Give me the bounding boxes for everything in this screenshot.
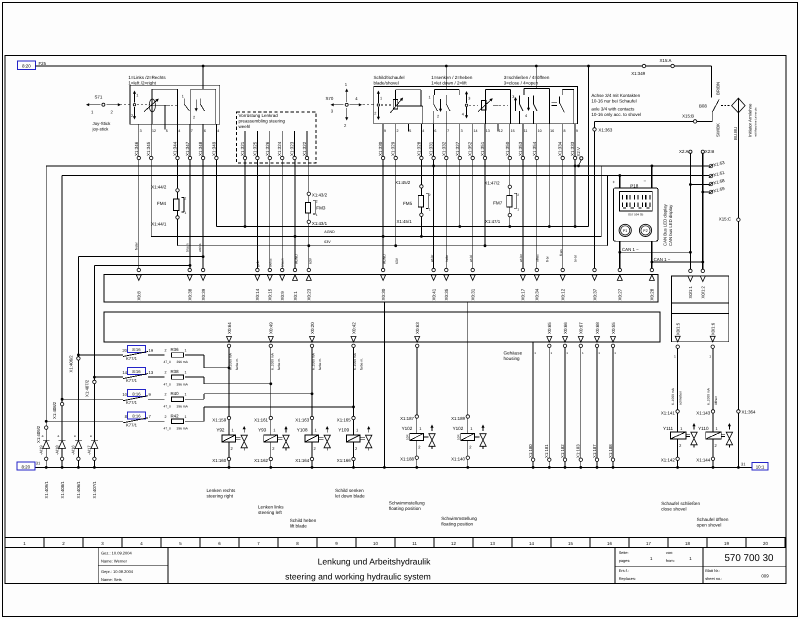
connector X1:53 xyxy=(709,164,713,168)
wire X1:324 xyxy=(281,131,283,156)
svg-text:Y110: Y110 xyxy=(698,426,709,431)
svg-text:5: 5 xyxy=(409,129,411,133)
svg-text:6..1000 mA: 6..1000 mA xyxy=(353,352,357,370)
svg-text:X1:334: X1:334 xyxy=(558,141,563,156)
svg-text:X0/1:1: X0/1:1 xyxy=(688,285,693,298)
svg-text:X0:8: X0:8 xyxy=(137,291,142,301)
svg-text:steering and working hydraulic: steering and working hydraulic system xyxy=(285,572,431,582)
wire rail ring C y256.6 xyxy=(78,256,203,258)
svg-text:X1:164: X1:164 xyxy=(295,458,309,463)
svg-text:X0:41: X0:41 xyxy=(431,288,436,300)
svg-text:17: 17 xyxy=(646,541,651,546)
svg-text:X1:406/2: X1:406/2 xyxy=(68,355,73,373)
wire X1:330 to X0:30 xyxy=(382,160,384,269)
svg-text:X1:141: X1:141 xyxy=(661,411,675,416)
svg-text:2: 2 xyxy=(165,371,167,375)
svg-text:6..1000 mA: 6..1000 mA xyxy=(270,352,274,370)
svg-text:X1:142: X1:142 xyxy=(661,457,675,462)
svg-text:X1:160: X1:160 xyxy=(212,458,226,463)
connector strip X0 upper band xyxy=(104,275,658,302)
svg-text:19: 19 xyxy=(724,541,729,546)
svg-text:X0:64: X0:64 xyxy=(227,322,232,334)
svg-text:8: 8 xyxy=(564,129,566,133)
svg-text:X1:349: X1:349 xyxy=(211,141,216,156)
wire X1:332 xyxy=(445,124,447,157)
junction on F25 to switch block S70 riser 2 xyxy=(535,65,538,68)
svg-text:10: 10 xyxy=(373,541,378,546)
connector X0:27 xyxy=(618,268,621,271)
svg-text:6..1000 mA: 6..1000 mA xyxy=(229,352,233,370)
connector X0:17 xyxy=(521,268,524,271)
wire X1:323 to X0:1 xyxy=(294,160,296,269)
svg-text:X0:66: X0:66 xyxy=(563,322,568,334)
svg-text:10: 10 xyxy=(122,392,127,397)
solenoid valve Y109 xyxy=(353,348,355,417)
svg-text:11: 11 xyxy=(524,129,528,133)
svg-text:X1:45/1: X1:45/1 xyxy=(397,219,413,224)
svg-text:joy-stick: joy-stick xyxy=(92,127,110,132)
svg-text:F1: F1 xyxy=(623,229,627,233)
svg-text:X0:15: X0:15 xyxy=(268,288,273,300)
svg-text:X1:351: X1:351 xyxy=(480,141,485,156)
svg-text:FM7: FM7 xyxy=(493,200,503,205)
wire X1:182 xyxy=(564,348,566,459)
svg-text:19: 19 xyxy=(149,348,154,353)
wire X0:63 to valve Y102-1 xyxy=(416,348,418,415)
svg-text:X1:328: X1:328 xyxy=(416,141,421,156)
svg-text:1=let down / 2=lift: 1=let down / 2=lift xyxy=(431,80,467,85)
svg-text:X2:B: X2:B xyxy=(705,149,715,154)
svg-text:X1:332: X1:332 xyxy=(441,141,446,156)
svg-text:X0:55: X0:55 xyxy=(611,322,616,334)
svg-text:1: 1 xyxy=(182,95,184,99)
wire X1:329 down xyxy=(395,160,397,246)
block1 sub-box left xyxy=(152,88,178,90)
connector X0:1 xyxy=(293,268,296,271)
wire X1:353 xyxy=(522,124,524,157)
wire X1:321 xyxy=(244,131,246,156)
svg-text:X1:349: X1:349 xyxy=(631,71,645,76)
solenoid valve Y102 xyxy=(467,348,469,417)
wire X0:28 CAN xyxy=(651,241,653,268)
svg-text:X0:39: X0:39 xyxy=(201,288,206,300)
wire X1:350 through FM7 xyxy=(509,160,511,185)
wire pin 5 xyxy=(408,124,410,132)
svg-text:6: 6 xyxy=(204,129,206,133)
svg-text:X1:183: X1:183 xyxy=(576,444,581,458)
svg-text:X1:406/1: X1:406/1 xyxy=(76,481,81,499)
svg-text:4: 4 xyxy=(217,129,219,133)
wire X1:325 to X0:14 xyxy=(256,160,258,269)
svg-text:X0:9: X0:9 xyxy=(280,291,285,301)
svg-text:-A/19: -A/19 xyxy=(38,445,43,455)
connector X0:9 xyxy=(281,268,284,271)
svg-text:X0:23: X0:23 xyxy=(307,288,312,300)
svg-text:X0/1:5: X0/1:5 xyxy=(676,322,681,335)
svg-text:preassembling steering: preassembling steering xyxy=(239,119,286,124)
svg-text:1: 1 xyxy=(429,96,431,100)
svg-text:47_0: 47_0 xyxy=(164,360,172,364)
svg-text:12: 12 xyxy=(152,129,156,133)
block2 select arrow mid xyxy=(466,94,468,103)
svg-text:13: 13 xyxy=(149,370,154,375)
svg-text:2: 2 xyxy=(517,193,519,197)
svg-text:-A/18: -A/18 xyxy=(54,445,59,455)
svg-text:fl-br: fl-br xyxy=(546,255,550,262)
svg-text:10:1: 10:1 xyxy=(756,465,765,470)
svg-text:öffnen: öffnen xyxy=(714,396,718,405)
svg-text:X2:A: X2:A xyxy=(679,149,689,154)
svg-text:a: a xyxy=(74,434,76,438)
svg-text:Gehäuse: Gehäuse xyxy=(504,351,523,356)
svg-text:X1:325: X1:325 xyxy=(252,141,257,156)
svg-text:X1:329: X1:329 xyxy=(391,141,396,156)
svg-text:Schild heben: Schild heben xyxy=(290,518,317,523)
wire X1:349 xyxy=(215,124,217,156)
wire X1:326 xyxy=(269,131,271,156)
svg-text:axle 3/4 with contacts: axle 3/4 with contacts xyxy=(591,107,635,112)
connector X0:35 xyxy=(445,268,448,271)
wire X1:346 xyxy=(138,124,140,156)
svg-text:Y102: Y102 xyxy=(402,426,413,431)
svg-text:weiss: weiss xyxy=(198,243,202,252)
svg-text:X1:327: X1:327 xyxy=(455,141,460,156)
svg-text:R36: R36 xyxy=(171,347,180,352)
wire X1:345 to AGND rail xyxy=(150,160,152,237)
svg-text:X1:354: X1:354 xyxy=(532,141,537,156)
svg-text:mit Maschine Lehne uts: mit Maschine Lehne uts xyxy=(754,107,758,137)
svg-text:Initiator Armlehne: Initiator Armlehne xyxy=(748,103,753,137)
wire X1:325 xyxy=(256,131,258,156)
svg-text:396 mA: 396 mA xyxy=(177,404,189,408)
svg-text:12: 12 xyxy=(451,541,456,546)
svg-text:X0:28: X0:28 xyxy=(650,288,655,300)
svg-text:X1:363: X1:363 xyxy=(598,128,612,133)
svg-text:X1:330: X1:330 xyxy=(378,141,383,156)
svg-text:396 mA: 396 mA xyxy=(177,427,189,431)
svg-text:steering right: steering right xyxy=(207,493,234,498)
svg-text:Y111: Y111 xyxy=(663,426,673,431)
svg-text:FM5: FM5 xyxy=(403,201,413,206)
wire X1:344 through FM4 xyxy=(177,160,179,188)
wire rail y226.5 xyxy=(216,226,588,228)
svg-text:570 700 30: 570 700 30 xyxy=(724,553,774,564)
wire pin 16 xyxy=(548,124,550,132)
svg-text:Schwimmstellung: Schwimmstellung xyxy=(441,516,477,521)
svg-text:X0:67: X0:67 xyxy=(579,322,584,334)
svg-text:CAN bus LED display: CAN bus LED display xyxy=(668,204,673,246)
svg-text:47_0: 47_0 xyxy=(164,427,172,431)
block1 sub-box right xyxy=(191,88,216,90)
svg-text:1: 1 xyxy=(185,349,187,353)
connector X0/1:2 xyxy=(701,269,704,272)
svg-text:Y92: Y92 xyxy=(216,428,225,433)
svg-text:F25: F25 xyxy=(39,61,47,66)
wire pin16 down xyxy=(548,132,550,227)
svg-text:12: 12 xyxy=(499,129,503,133)
svg-text:Lenkung und Arbeitshydraulik: Lenkung und Arbeitshydraulik xyxy=(318,557,431,567)
wire X1:354 to X0:34 xyxy=(536,160,538,269)
svg-text:15: 15 xyxy=(511,129,515,133)
svg-text:Y102: Y102 xyxy=(453,426,464,431)
svg-text:14: 14 xyxy=(122,370,127,375)
svg-text:X1:331: X1:331 xyxy=(429,141,434,156)
wire P18 plus xyxy=(619,176,621,188)
svg-text:X1:321: X1:321 xyxy=(240,141,245,156)
svg-text:X0:34: X0:34 xyxy=(535,288,540,300)
svg-text:47_0: 47_0 xyxy=(164,382,172,386)
svg-text:Y109: Y109 xyxy=(338,428,349,433)
button F1 xyxy=(619,224,631,236)
svg-text:X1:43/2: X1:43/2 xyxy=(312,193,328,198)
svg-text:8:16: 8:16 xyxy=(132,369,141,374)
connector X1:409/2 xyxy=(45,426,48,429)
wire X1:334 xyxy=(562,124,564,157)
svg-text:weiss: weiss xyxy=(268,258,272,267)
svg-text:057 594 05: 057 594 05 xyxy=(628,213,643,217)
connector X0:38 xyxy=(188,268,191,271)
wire X1:330 xyxy=(382,124,384,157)
svg-text:K77/1: K77/1 xyxy=(126,422,138,427)
svg-text:9: 9 xyxy=(384,129,386,133)
svg-text:3=schließen / 4=öffnen: 3=schließen / 4=öffnen xyxy=(504,75,550,80)
svg-text:2: 2 xyxy=(316,200,318,204)
wire X1:181 xyxy=(548,348,550,459)
svg-text:steering left: steering left xyxy=(258,510,282,515)
svg-text:6..1000 mA: 6..1000 mA xyxy=(671,387,675,405)
svg-text:1: 1 xyxy=(316,213,318,217)
svg-text:X0:14: X0:14 xyxy=(255,288,260,300)
svg-text:X1:187: X1:187 xyxy=(400,416,414,421)
svg-text:X15:A: X15:A xyxy=(660,58,672,63)
svg-text:X1:408/2: X1:408/2 xyxy=(52,401,57,419)
svg-text:R40: R40 xyxy=(171,391,180,396)
svg-text:8:20: 8:20 xyxy=(22,464,31,469)
svg-text:1=senken / 2=heben: 1=senken / 2=heben xyxy=(431,75,473,80)
svg-text:1: 1 xyxy=(185,415,187,419)
svg-text:X1:409/2: X1:409/2 xyxy=(36,425,41,443)
svg-text:Vorrüstung Lenkrad: Vorrüstung Lenkrad xyxy=(239,113,279,118)
wire X1:327 down xyxy=(459,160,461,227)
ground bus wire 31 xyxy=(35,466,752,468)
junction on F25 to switch block S71 xyxy=(202,65,205,68)
svg-text:housing: housing xyxy=(504,356,521,361)
junction on F25 to X1:363 branch xyxy=(587,65,590,68)
svg-text:X1:352: X1:352 xyxy=(468,141,473,156)
svg-text:X0:35: X0:35 xyxy=(444,288,449,300)
connector X1:58 xyxy=(709,182,713,186)
svg-text:X1:322: X1:322 xyxy=(302,141,307,156)
svg-text:from:: from: xyxy=(666,558,675,563)
svg-text:F2: F2 xyxy=(643,229,647,233)
left wrap ring A down to diode -A/19 xyxy=(45,166,47,440)
svg-text:9: 9 xyxy=(576,129,578,133)
svg-text:R42: R42 xyxy=(171,413,180,418)
svg-text:X1:45/2: X1:45/2 xyxy=(395,180,411,185)
block1 contact right blade xyxy=(199,99,201,105)
svg-text:Achse 3/4 mit Kontakten: Achse 3/4 mit Kontakten xyxy=(591,93,640,98)
svg-text:10R: 10R xyxy=(406,434,410,440)
svg-text:31: 31 xyxy=(741,462,746,467)
connector X0:28 xyxy=(650,268,653,271)
svg-text:-A/17: -A/17 xyxy=(87,445,92,455)
wire X1:331 to X0:41 xyxy=(433,160,435,269)
connector X0:34 xyxy=(535,268,538,271)
wire X1:332 to X0:35 xyxy=(445,160,447,269)
connector X0:12 xyxy=(561,268,564,271)
svg-text:pages:: pages: xyxy=(619,558,631,563)
svg-text:2: 2 xyxy=(429,193,431,197)
svg-text:14: 14 xyxy=(529,541,534,546)
wire X1:326 to X0:15 xyxy=(269,160,271,269)
svg-text:47_0: 47_0 xyxy=(164,404,172,408)
svg-text:18: 18 xyxy=(685,541,690,546)
svg-text:offws: offws xyxy=(535,254,539,262)
svg-text:X1:409/1: X1:409/1 xyxy=(44,481,49,499)
connector X0:8 xyxy=(137,268,140,271)
svg-text:CAN 1 −: CAN 1 − xyxy=(622,247,639,252)
svg-text:X1:162: X1:162 xyxy=(254,458,268,463)
wire X1:183 xyxy=(580,348,582,459)
svg-text:X1:324: X1:324 xyxy=(277,141,282,156)
svg-text:X1:181: X1:181 xyxy=(544,444,549,458)
svg-text:BR/BN: BR/BN xyxy=(716,82,721,95)
svg-text:1: 1 xyxy=(380,97,382,101)
node 8:20 (sheet cross reference, top left) xyxy=(17,61,35,70)
solenoid valve Y93 xyxy=(270,348,272,417)
svg-text:1=left /2=right: 1=left /2=right xyxy=(128,80,156,85)
svg-text:31: 31 xyxy=(36,461,41,466)
svg-text:2: 2 xyxy=(193,116,195,120)
svg-text:X0:12: X0:12 xyxy=(561,288,566,300)
connector X0:31 xyxy=(471,268,474,271)
svg-text:X1:47/1: X1:47/1 xyxy=(485,219,501,224)
wire X0:30 passthrough down to ground bus xyxy=(383,302,385,467)
svg-text:14: 14 xyxy=(474,129,478,133)
connector X1:51 xyxy=(709,174,713,178)
svg-text:Schaufel öffnen: Schaufel öffnen xyxy=(697,517,729,522)
svg-text:Seite:: Seite: xyxy=(619,550,629,555)
wire X1:328 through FM5 xyxy=(420,160,422,185)
svg-text:X0:63: X0:63 xyxy=(415,322,420,334)
wire X0:31 passthrough to valve Y102-2 xyxy=(467,302,469,415)
connector X0:23 xyxy=(307,268,310,271)
wire X1:353 to X0:17 xyxy=(522,160,524,269)
svg-text:X1:333: X1:333 xyxy=(570,141,575,156)
svg-text:X0/1:2: X0/1:2 xyxy=(701,285,706,298)
svg-text:7: 7 xyxy=(191,129,193,133)
svg-text:X0:20: X0:20 xyxy=(310,322,315,334)
svg-text:396 mA: 396 mA xyxy=(177,360,189,364)
svg-text:X1:44/2: X1:44/2 xyxy=(151,185,167,190)
svg-text:a: a xyxy=(90,434,92,438)
svg-text:396 mA: 396 mA xyxy=(177,382,189,386)
svg-text:a: a xyxy=(58,434,60,438)
svg-text:a: a xyxy=(42,434,44,438)
svg-text:1: 1 xyxy=(185,211,187,215)
block1 contact 2 arrow xyxy=(195,100,197,109)
wire X1:351 xyxy=(484,124,486,157)
connector X0:14 xyxy=(256,268,259,271)
svg-text:X0:31: X0:31 xyxy=(471,288,476,300)
svg-text:K77/1: K77/1 xyxy=(126,400,138,405)
svg-text:X1:348: X1:348 xyxy=(198,141,203,156)
initiator proximity switch diamond xyxy=(732,98,746,113)
wire from -A/19 column to K77 row4 xyxy=(46,420,123,422)
svg-text:X1:188: X1:188 xyxy=(400,456,414,461)
svg-text:10-16 only acc. to shovel: 10-16 only acc. to shovel xyxy=(591,112,641,117)
title block dividers xyxy=(97,548,99,584)
title strip line xyxy=(5,537,786,539)
wire X0/1:6 to Y110 xyxy=(712,348,714,355)
svg-text:+: + xyxy=(613,179,616,184)
svg-text:X15:B: X15:B xyxy=(682,114,694,119)
solenoid valve Y110 xyxy=(712,348,714,409)
svg-text:BU.BU: BU.BU xyxy=(733,127,738,140)
svg-text:1: 1 xyxy=(709,355,711,359)
svg-text:AGND: AGND xyxy=(383,254,387,264)
svg-text:X1:323: X1:323 xyxy=(290,141,295,156)
wire X1:349 to 226 rail xyxy=(215,160,217,227)
connector strip X0 lower band xyxy=(104,312,660,342)
block2 potentiometer 1 xyxy=(395,89,421,91)
wire rail ring D y265.4 xyxy=(94,264,190,266)
block2 end switch xyxy=(552,101,558,103)
svg-text:farbe m.: farbe m. xyxy=(318,358,322,370)
wire X0:27 CAN xyxy=(619,241,621,268)
svg-text:X1:188: X1:188 xyxy=(608,444,613,458)
svg-text:4: 4 xyxy=(422,129,424,133)
svg-text:X0/1:6: X0/1:6 xyxy=(711,322,716,335)
svg-text:let down blade: let down blade xyxy=(335,493,365,498)
svg-text:8:16: 8:16 xyxy=(132,347,141,352)
svg-text:Blatt Nr.:: Blatt Nr.: xyxy=(705,568,720,573)
wire X1:363 branch from F25 xyxy=(588,66,590,227)
svg-text:B08: B08 xyxy=(699,103,707,108)
connector X0/1:1 xyxy=(689,269,692,272)
svg-text:X1:364: X1:364 xyxy=(742,410,756,415)
svg-text:X1:182: X1:182 xyxy=(560,444,565,458)
solenoid valve Y92 xyxy=(228,348,230,417)
wire X1:188 xyxy=(612,348,614,459)
svg-text:X1:407/2: X1:407/2 xyxy=(84,379,89,397)
svg-text:Schild senken: Schild senken xyxy=(335,488,364,493)
svg-text:X0:38: X0:38 xyxy=(188,288,193,300)
wire X1:345 xyxy=(150,124,152,156)
svg-text:AGND: AGND xyxy=(324,230,335,234)
svg-text:10R: 10R xyxy=(457,434,461,440)
connector X0:41 xyxy=(432,268,435,271)
wire X0/1:5 to Y111 xyxy=(677,348,679,355)
svg-text:13: 13 xyxy=(486,129,490,133)
svg-text:X1:44/1: X1:44/1 xyxy=(151,222,167,227)
svg-text:fl-ws: fl-ws xyxy=(559,249,563,256)
svg-text:X15:C: X15:C xyxy=(719,216,731,221)
svg-text:wt-bn: wt-bn xyxy=(519,254,523,262)
junction on F25 to switch block S70 riser 1 xyxy=(445,65,448,68)
block2 sub-box right xyxy=(524,88,550,90)
right risers AGND/63V to rings xyxy=(600,166,602,237)
svg-text:−: − xyxy=(644,178,647,183)
svg-text:von:: von: xyxy=(666,550,673,555)
svg-text:7: 7 xyxy=(447,129,449,133)
wire X1:352 to X0:31 xyxy=(472,160,474,269)
wire rail ring A y166 xyxy=(46,165,709,167)
connector X1:408/2 xyxy=(60,402,63,405)
svg-text:X1:346: X1:346 xyxy=(134,141,139,156)
wire X1:347 to X0:38 xyxy=(189,160,191,269)
svg-text:Lenken links: Lenken links xyxy=(258,505,284,510)
